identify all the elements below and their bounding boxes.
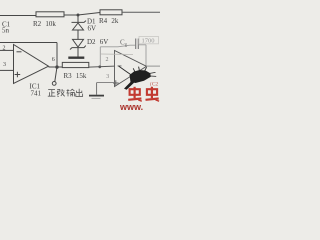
svg-text:6V: 6V (88, 25, 97, 33)
wire R3 right lead to IC2 pin2 (89, 66, 115, 67)
svg-text:2: 2 (3, 46, 6, 52)
terminal sine output (52, 82, 56, 86)
wire pin3 IC2 (97, 82, 115, 84)
svg-text:3: 3 (3, 62, 6, 68)
op-amp IC1 (14, 45, 49, 84)
svg-text:6: 6 (52, 57, 55, 63)
node junction R3 right (98, 65, 101, 68)
svg-text:2: 2 (106, 57, 109, 63)
wire top rail right (122, 11, 160, 13)
label sine output (vector CJK 正弦输出) (48, 89, 83, 97)
svg-text:1700: 1700 (142, 38, 155, 45)
wire faint mid (101, 53, 133, 56)
zener D2 (73, 39, 84, 47)
svg-text:R2 10k: R2 10k (33, 20, 56, 28)
wire integrator vertical (99, 47, 101, 66)
op-amp IC2 (115, 51, 147, 87)
resistor R4 (100, 10, 122, 15)
wire zener to R3 (77, 48, 79, 57)
value box 1700 (139, 37, 159, 44)
resistor R2 (36, 12, 64, 17)
ground bar (89, 95, 104, 97)
zener D1 (72, 21, 87, 23)
char 弦 (57, 89, 65, 96)
svg-text:741: 741 (31, 90, 42, 98)
wire pin3 IC1 (0, 69, 14, 71)
wire feedback down (145, 45, 147, 66)
watermark text chongchong (vector 虫虫) (128, 87, 159, 101)
wire between zeners (77, 30, 79, 39)
node output junction (55, 65, 58, 68)
svg-text:D2 6V: D2 6V (87, 38, 108, 46)
svg-text:5n: 5n (2, 27, 10, 35)
wire output vertical (55, 43, 57, 82)
wire pin2 IC1 (0, 49, 14, 51)
wire top rail mid (64, 13, 100, 16)
wire cap right (139, 44, 146, 46)
char 虫 second (146, 87, 160, 101)
char 输 (66, 89, 74, 96)
svg-text:3: 3 (106, 74, 109, 80)
wire top rail left (0, 15, 36, 17)
resistor R3 (62, 62, 89, 67)
capacitor Cg (136, 39, 139, 50)
wire feedback top (0, 42, 57, 44)
wire zener drop (77, 15, 79, 22)
junction bar above R3 (68, 57, 84, 59)
svg-text:R4 2k: R4 2k (99, 17, 119, 25)
char 虫 first (128, 87, 142, 101)
watermark bug logo (119, 66, 157, 90)
wire IC1 output to R3 (49, 66, 63, 68)
char 出 (76, 89, 83, 97)
wire cap left (100, 45, 135, 47)
svg-text:(C2: (C2 (150, 80, 159, 87)
wire IC2 output (147, 65, 161, 67)
char 正 (48, 90, 56, 97)
node junction top (77, 14, 80, 17)
svg-text:R3 15k: R3 15k (64, 72, 87, 80)
ground stem (96, 83, 98, 95)
ground bar 2 (92, 97, 101, 99)
svg-text:www.: www. (119, 102, 143, 110)
